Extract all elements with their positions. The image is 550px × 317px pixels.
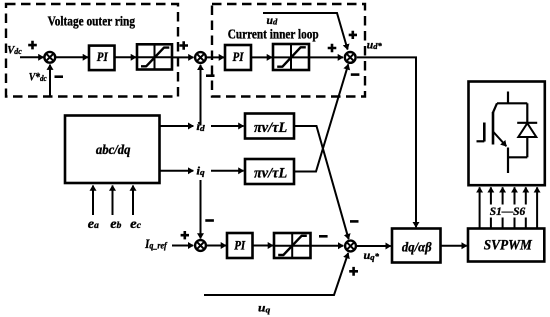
wire: V*dc feedback up into S1 bbox=[49, 65, 51, 96]
svg-text:Voltage outer ring: Voltage outer ring bbox=[48, 15, 135, 30]
wire: S2 to PI2 bbox=[206, 56, 224, 58]
block limiter1 (saturation) bbox=[137, 44, 172, 69]
svg-text:πv/τL: πv/τL bbox=[254, 166, 287, 182]
svg-text:SVPWM: SVPWM bbox=[484, 237, 533, 253]
wire: id to pv/tL1 bbox=[211, 125, 244, 127]
minus sign at S5 (from limiter3) bbox=[319, 235, 328, 238]
block PI3 bbox=[227, 233, 253, 258]
wire: iq to pv/tL2 bbox=[211, 170, 244, 172]
wire: limiter3 to S5 bbox=[311, 245, 344, 247]
plus sign at S3 (from limiter2) bbox=[328, 44, 337, 53]
dashed box: Voltage outer ring bbox=[6, 4, 178, 97]
wire: dq/ab to SVPWM bbox=[441, 245, 467, 247]
wire: S1 to PI1 bbox=[55, 56, 88, 58]
plus sign at summer S1 bbox=[28, 41, 37, 50]
svg-text:PI: PI bbox=[234, 238, 246, 252]
block limiter3 (saturation) bbox=[274, 233, 311, 258]
block pv/tL 1 bbox=[245, 114, 294, 139]
wire: ud feedforward bbox=[263, 13, 348, 50]
svg-text:V*dc: V*dc bbox=[29, 72, 47, 84]
block SVPWM bbox=[468, 229, 544, 262]
diode D1 bbox=[517, 103, 537, 157]
summing junction S3 (ud*) bbox=[345, 52, 356, 63]
svg-text:PI: PI bbox=[97, 50, 109, 64]
wires: S1-S6 gate signals bbox=[480, 187, 537, 228]
block pv/tL 2 bbox=[245, 159, 294, 184]
wire: S4 to PI3 bbox=[206, 245, 226, 247]
svg-text:πv/τL: πv/τL bbox=[254, 120, 287, 136]
wire: PI1 to limiter1 bbox=[115, 56, 137, 58]
wire: uq feedforward bbox=[204, 253, 348, 295]
wire: Iq_ref input bbox=[172, 245, 193, 247]
svg-text:ud*: ud* bbox=[367, 40, 383, 52]
plus sign at S5 (from uq) bbox=[349, 267, 358, 276]
wires: ea eb ec inputs bbox=[92, 186, 94, 216]
svg-text:Current inner loop: Current inner loop bbox=[228, 28, 319, 43]
summing junction S1 bbox=[44, 52, 55, 63]
wire: PI2 to limiter2 bbox=[251, 56, 272, 58]
wire: limiter2 to summer S3 bbox=[309, 56, 343, 58]
minus sign at S3 (from decoupling) bbox=[351, 73, 360, 76]
transistor Q1 (IGBT) bbox=[477, 92, 528, 174]
block PI2 bbox=[225, 45, 251, 70]
minus sign at S2 bbox=[206, 74, 215, 77]
svg-text:abc/dq: abc/dq bbox=[96, 143, 131, 158]
plus sign at S4 bbox=[181, 231, 189, 239]
block abc/dq bbox=[65, 116, 160, 184]
label S1-S6 bbox=[488, 205, 528, 218]
svg-text:dq/αβ: dq/αβ bbox=[402, 240, 432, 255]
summing junction S2 bbox=[195, 52, 206, 63]
dashed box: Current inner loop bbox=[212, 4, 365, 97]
svg-text:PI: PI bbox=[233, 50, 245, 64]
wire: S5 to dq/ab bbox=[357, 245, 391, 247]
svg-text:ud: ud bbox=[267, 15, 279, 27]
wire: id feedback up into S2 bbox=[200, 65, 202, 126]
block limiter2 (saturation) bbox=[273, 44, 309, 70]
wire: Vdc input bbox=[20, 56, 44, 58]
wire: pv/tL1 decoupling to S4 (down-right) bbox=[294, 126, 349, 239]
wire: PI3 to limiter3 bbox=[253, 245, 274, 247]
wire: abc/dq to id label bbox=[160, 125, 194, 127]
wire: limiter1 to summer S2 bbox=[172, 56, 194, 58]
svg-text:Vdc: Vdc bbox=[7, 45, 22, 57]
block: inverter bridge box bbox=[469, 82, 545, 186]
plus sign at S3 (from ud) bbox=[349, 31, 357, 39]
wire: abc/dq to iq label bbox=[160, 170, 194, 172]
summing junction S5 (uq*) bbox=[345, 241, 356, 252]
summing junction S4 bbox=[195, 240, 206, 251]
block PI1 bbox=[89, 46, 115, 71]
minus sign at S1 bbox=[55, 75, 64, 78]
wire: iq feedback down into S4 bbox=[200, 180, 202, 239]
svg-text:S1—S6: S1—S6 bbox=[490, 206, 526, 218]
wire: ud* to dq/ab block bbox=[357, 57, 416, 227]
plus sign at S2 bbox=[179, 41, 188, 50]
wire: pv/tL2 decoupling to S3 (up-right) bbox=[293, 64, 348, 171]
minus sign at S5 (from decoupling) bbox=[350, 220, 359, 223]
block dq/ab bbox=[392, 229, 441, 263]
minus sign at S4 bbox=[205, 219, 214, 222]
